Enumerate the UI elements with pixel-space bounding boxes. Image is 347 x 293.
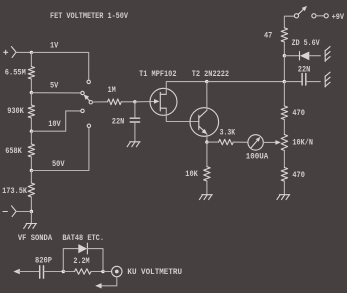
node J10 (rail bypass) xyxy=(283,80,286,83)
return arrow xyxy=(95,283,101,288)
svg-text:3.3K: 3.3K xyxy=(220,129,236,138)
resistor 1M xyxy=(108,99,122,105)
wire xyxy=(134,122,136,141)
wire T1 source to T2 base xyxy=(166,108,199,121)
node J5 (minus input) xyxy=(30,210,33,213)
switch S2 contact a xyxy=(294,14,298,18)
wire xyxy=(91,271,103,273)
node J7 (collector rail) xyxy=(205,80,208,83)
terminal +9V xyxy=(324,14,328,18)
node J1 (top of divider) xyxy=(30,51,33,54)
label 173.5K xyxy=(2,187,27,196)
svg-text:820P: 820P xyxy=(35,256,52,265)
label 10K/N xyxy=(292,139,313,148)
resistor 658K xyxy=(28,144,34,157)
ground (divider) xyxy=(24,224,37,229)
label 100UA xyxy=(246,153,269,162)
wire 10V tap xyxy=(31,111,80,131)
wire T1 drain to rail xyxy=(166,82,207,95)
wire xyxy=(283,151,285,168)
ground (gate cap) xyxy=(127,142,140,147)
node J11 xyxy=(62,270,65,273)
svg-text:47: 47 xyxy=(264,32,272,41)
node J12 xyxy=(101,270,104,273)
label +9V xyxy=(332,13,345,22)
svg-text:930K: 930K xyxy=(7,107,24,116)
svg-text:10V: 10V xyxy=(48,120,61,129)
svg-text:22N: 22N xyxy=(112,118,125,127)
wire 1V tap xyxy=(31,52,88,80)
wire meter to pot wiper xyxy=(263,141,275,143)
wire xyxy=(30,197,32,212)
wire xyxy=(30,79,32,93)
label 2.2M xyxy=(73,257,89,266)
wire xyxy=(283,42,285,56)
meter M1 100UA xyxy=(248,135,263,150)
wire T2 emitter xyxy=(206,134,208,142)
wire rail to switch xyxy=(284,16,294,28)
svg-text:10K: 10K xyxy=(185,170,198,179)
wire xyxy=(283,120,285,135)
input terminal + (probe) xyxy=(4,47,16,58)
ground (rail cap, sideways) xyxy=(325,72,330,87)
switch contact 5V xyxy=(81,91,84,94)
svg-text:2.2M: 2.2M xyxy=(73,257,89,266)
label 22N rail xyxy=(298,65,311,74)
wire terminal return xyxy=(101,277,117,286)
switch S2 lever xyxy=(298,6,307,14)
label 470 bottom xyxy=(292,171,305,180)
svg-text:6.55M: 6.55M xyxy=(5,69,26,78)
resistor 10K xyxy=(204,167,210,181)
svg-text:5V: 5V xyxy=(50,82,58,91)
label 10K xyxy=(185,170,198,179)
wire xyxy=(207,141,219,143)
wire xyxy=(19,271,40,273)
capacitor 22N (gate) xyxy=(130,118,139,122)
wire xyxy=(16,211,31,213)
svg-text:KU VOLTMETRU: KU VOLTMETRU xyxy=(127,268,182,277)
switch contact 50V xyxy=(87,124,90,127)
label 1M xyxy=(108,86,116,95)
label 658K xyxy=(5,147,22,156)
wire xyxy=(30,118,32,131)
label 470 top xyxy=(292,109,305,118)
node J3 (10V tap) xyxy=(30,130,33,133)
transistor T1 MPF102 (JFET) xyxy=(150,88,177,115)
label 820P xyxy=(35,256,52,265)
svg-text:FET VOLTMETER 1-50V: FET VOLTMETER 1-50V xyxy=(50,12,128,21)
capacitor 820P xyxy=(40,266,44,278)
ground (zener, sideways) xyxy=(325,47,330,62)
diode ZD 5.6V (zener) xyxy=(300,52,310,61)
wire xyxy=(284,55,299,57)
resistor 470 (top) xyxy=(281,106,287,120)
resistor 3.3K xyxy=(219,139,234,144)
label 10V xyxy=(48,120,61,129)
wire xyxy=(63,271,74,273)
label T2 2N2222 xyxy=(192,70,230,79)
wire xyxy=(103,271,112,273)
label VF SONDA xyxy=(18,234,52,243)
node J4 (50V tap) xyxy=(30,169,33,172)
switch S1 wiper arm xyxy=(84,94,90,101)
pot wiper arrow xyxy=(275,140,280,145)
resistor 6.55M xyxy=(28,67,34,80)
wire to ground xyxy=(30,212,32,224)
svg-text:173.5K: 173.5K xyxy=(2,187,27,196)
label 47 xyxy=(264,32,272,41)
label 6.55M xyxy=(5,69,26,78)
wire xyxy=(316,15,324,17)
svg-text:470: 470 xyxy=(292,109,305,118)
wire diode loop right xyxy=(87,249,103,272)
wire xyxy=(93,101,108,103)
resistor 930K xyxy=(28,105,34,118)
wire xyxy=(134,102,136,118)
wire xyxy=(44,271,64,273)
svg-text:+9V: +9V xyxy=(332,13,345,22)
wire xyxy=(309,55,320,57)
label 1V xyxy=(50,42,58,51)
label BAT48 ETC. xyxy=(62,234,104,243)
switch S2 contact b xyxy=(312,14,316,18)
resistor 2.2M xyxy=(75,269,92,274)
svg-text:470: 470 xyxy=(292,171,305,180)
title label xyxy=(50,12,128,21)
svg-text:50V: 50V xyxy=(52,160,65,169)
diode BAT48 xyxy=(78,243,87,254)
wire 50V tap xyxy=(31,128,89,171)
capacitor 22N (rail) xyxy=(302,74,306,85)
switch contact 1V xyxy=(87,80,90,83)
node J9 (zener node) xyxy=(283,54,286,57)
resistor 470 (bottom) xyxy=(281,168,287,182)
svg-text:T1 MPF102: T1 MPF102 xyxy=(139,70,177,79)
node J2 (5V tap) xyxy=(30,91,33,94)
wire xyxy=(30,131,32,144)
svg-text:T2 2N2222: T2 2N2222 xyxy=(192,70,230,79)
label ZD 5.6V xyxy=(292,39,320,48)
svg-text:10K/N: 10K/N xyxy=(292,139,313,148)
svg-text:1M: 1M xyxy=(108,86,116,95)
wire xyxy=(206,181,208,195)
label 50V xyxy=(52,160,65,169)
wire rail xyxy=(283,56,285,82)
wire xyxy=(30,157,32,171)
svg-text:BAT48 ETC.: BAT48 ETC. xyxy=(62,234,104,243)
svg-text:658K: 658K xyxy=(5,147,22,156)
wire xyxy=(30,93,32,105)
node J8 (emitter node) xyxy=(205,140,208,143)
wire xyxy=(206,142,208,167)
svg-text:100UA: 100UA xyxy=(246,153,269,162)
resistor 173.5K xyxy=(28,183,34,197)
label KU VOLTMETRU xyxy=(127,268,182,277)
label 3.3K xyxy=(220,129,236,138)
svg-text:22N: 22N xyxy=(298,65,311,74)
label 22N gate xyxy=(112,118,125,127)
label T1 MPF102 xyxy=(139,70,177,79)
ground (470) xyxy=(277,195,290,200)
wire xyxy=(283,82,285,106)
wire xyxy=(233,141,248,143)
label 930K xyxy=(7,107,24,116)
wire xyxy=(30,171,32,184)
output terminal KU VOLTMETRU xyxy=(112,266,122,276)
gate arrow xyxy=(154,99,159,104)
probe tip arrow (left) xyxy=(13,269,19,274)
wire xyxy=(16,51,31,53)
wire to gate xyxy=(135,101,155,103)
wire xyxy=(284,81,302,83)
switch S1 common contact xyxy=(89,101,92,104)
node J6 (gate node) xyxy=(133,100,136,103)
resistor 47 xyxy=(281,28,287,42)
wire xyxy=(283,181,285,194)
wire xyxy=(121,101,135,103)
svg-text:1V: 1V xyxy=(50,42,58,51)
label 5V xyxy=(50,82,58,91)
transistor T2 2N2222 xyxy=(190,108,219,137)
ground (10K) xyxy=(199,195,212,200)
wire 5V tap xyxy=(31,92,80,94)
potentiometer 10K/N xyxy=(281,135,287,151)
switch contact 10V xyxy=(81,109,84,112)
svg-text:VF SONDA: VF SONDA xyxy=(18,234,52,243)
wire collector rail xyxy=(207,81,284,83)
input terminal - (probe) xyxy=(3,206,16,217)
wire diode loop left xyxy=(63,249,78,272)
wire xyxy=(30,52,32,66)
wire T2 collector xyxy=(206,82,208,111)
svg-text:ZD 5.6V: ZD 5.6V xyxy=(292,39,320,48)
wire xyxy=(306,81,320,83)
